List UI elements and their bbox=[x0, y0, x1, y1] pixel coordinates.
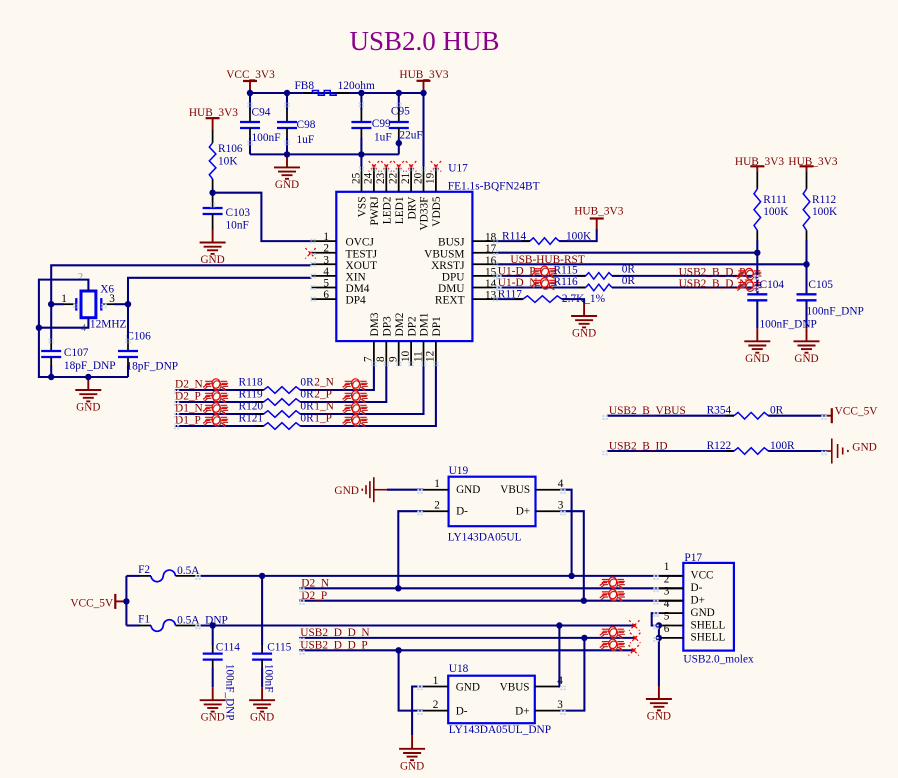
svg-text:LY143DA05UL_DNP: LY143DA05UL_DNP bbox=[449, 724, 551, 736]
svg-text:C114: C114 bbox=[216, 642, 240, 654]
svg-text:100R: 100R bbox=[770, 440, 795, 452]
svg-text:HUB_3V3: HUB_3V3 bbox=[399, 69, 448, 81]
svg-text:HUB_3V3: HUB_3V3 bbox=[574, 205, 623, 217]
svg-text:FB8: FB8 bbox=[295, 80, 315, 92]
svg-text:120ohm: 120ohm bbox=[338, 80, 375, 92]
svg-text:F1: F1 bbox=[138, 613, 150, 625]
svg-text:GND: GND bbox=[201, 712, 225, 724]
svg-text:USB2_B_D_P: USB2_B_D_P bbox=[679, 266, 746, 278]
svg-text:5: 5 bbox=[323, 278, 329, 290]
svg-text:23: 23 bbox=[375, 172, 387, 184]
svg-text:VD33F: VD33F bbox=[419, 197, 431, 231]
svg-text:GND: GND bbox=[456, 484, 480, 496]
svg-text:0R: 0R bbox=[622, 264, 636, 276]
svg-text:R118: R118 bbox=[239, 377, 263, 389]
svg-text:C106: C106 bbox=[126, 331, 151, 343]
svg-text:VCC_5V: VCC_5V bbox=[835, 405, 879, 417]
svg-text:3: 3 bbox=[557, 699, 563, 711]
svg-text:8: 8 bbox=[375, 356, 387, 362]
svg-text:C107: C107 bbox=[64, 347, 89, 359]
svg-text:BUSJ: BUSJ bbox=[438, 237, 465, 249]
svg-text:FE1.1s-BQFN24BT: FE1.1s-BQFN24BT bbox=[448, 181, 540, 193]
svg-text:U1-D_P: U1-D_P bbox=[498, 265, 536, 277]
svg-text:0.5A_DNP: 0.5A_DNP bbox=[177, 614, 228, 626]
svg-text:2: 2 bbox=[664, 573, 670, 585]
svg-text:DPU: DPU bbox=[442, 272, 465, 284]
svg-text:DM2: DM2 bbox=[394, 312, 406, 336]
svg-text:GND: GND bbox=[647, 711, 671, 723]
svg-text:D-: D- bbox=[456, 506, 468, 518]
svg-text:C104: C104 bbox=[760, 279, 785, 291]
svg-text:100nF_DNP: 100nF_DNP bbox=[224, 664, 236, 721]
svg-text:R112: R112 bbox=[812, 194, 836, 206]
svg-text:GND: GND bbox=[76, 402, 100, 414]
svg-text:USB2_B_VBUS: USB2_B_VBUS bbox=[609, 405, 686, 417]
svg-text:R106: R106 bbox=[218, 143, 243, 155]
svg-text:D+: D+ bbox=[515, 705, 529, 717]
svg-text:GND: GND bbox=[572, 328, 596, 340]
svg-text:18pF_DNP: 18pF_DNP bbox=[126, 361, 178, 373]
svg-text:F2: F2 bbox=[138, 564, 150, 576]
svg-text:GND: GND bbox=[275, 179, 299, 191]
svg-text:12: 12 bbox=[425, 351, 437, 362]
svg-text:GND: GND bbox=[745, 353, 769, 365]
svg-text:USB2_D_D_N: USB2_D_D_N bbox=[300, 627, 369, 639]
svg-text:D2_P: D2_P bbox=[301, 590, 327, 602]
svg-text:U19: U19 bbox=[449, 465, 469, 477]
svg-text:C103: C103 bbox=[226, 207, 251, 219]
svg-text:C94: C94 bbox=[252, 107, 271, 119]
svg-text:4: 4 bbox=[323, 266, 329, 278]
svg-text:TESTJ: TESTJ bbox=[346, 248, 378, 260]
svg-text:0R: 0R bbox=[300, 413, 314, 425]
svg-text:GND: GND bbox=[400, 760, 424, 772]
svg-text:P17: P17 bbox=[684, 552, 702, 564]
svg-text:3: 3 bbox=[558, 500, 564, 512]
svg-text:1: 1 bbox=[434, 478, 440, 490]
svg-text:21: 21 bbox=[400, 173, 412, 184]
svg-text:4: 4 bbox=[664, 598, 670, 610]
svg-text:R122: R122 bbox=[707, 440, 732, 452]
svg-text:11: 11 bbox=[412, 351, 424, 362]
svg-text:100nF: 100nF bbox=[262, 664, 274, 693]
svg-text:GND: GND bbox=[250, 712, 274, 724]
svg-text:2_N: 2_N bbox=[314, 377, 334, 389]
svg-text:22uF: 22uF bbox=[399, 130, 422, 142]
svg-text:1uF: 1uF bbox=[297, 134, 315, 146]
svg-text:REXT: REXT bbox=[435, 295, 465, 307]
svg-text:1: 1 bbox=[61, 293, 67, 305]
svg-text:D-: D- bbox=[691, 582, 703, 594]
svg-text:C98: C98 bbox=[297, 119, 316, 131]
svg-text:0R: 0R bbox=[300, 401, 314, 413]
svg-text:DMU: DMU bbox=[438, 283, 464, 295]
svg-text:2.7K_1%: 2.7K_1% bbox=[562, 293, 606, 305]
svg-text:1: 1 bbox=[664, 561, 670, 573]
svg-text:OVCJ: OVCJ bbox=[346, 237, 375, 249]
svg-text:VBUS: VBUS bbox=[500, 484, 530, 496]
svg-text:0.5A: 0.5A bbox=[177, 565, 200, 577]
svg-text:HUB_3V3: HUB_3V3 bbox=[788, 156, 837, 168]
svg-text:100K: 100K bbox=[566, 230, 592, 242]
svg-text:VCC: VCC bbox=[691, 570, 714, 582]
svg-text:2: 2 bbox=[78, 272, 83, 283]
svg-text:VBUSM: VBUSM bbox=[424, 248, 464, 260]
svg-text:DP3: DP3 bbox=[382, 316, 394, 337]
svg-text:100K: 100K bbox=[812, 206, 838, 218]
svg-text:0R: 0R bbox=[300, 377, 314, 389]
svg-text:VCC_5V: VCC_5V bbox=[70, 597, 114, 609]
svg-text:R354: R354 bbox=[707, 404, 732, 416]
svg-text:0R: 0R bbox=[622, 275, 636, 287]
svg-text:C99: C99 bbox=[372, 118, 391, 130]
svg-text:GND: GND bbox=[200, 254, 224, 266]
svg-text:DRV: DRV bbox=[406, 196, 418, 220]
svg-text:1_P: 1_P bbox=[314, 413, 332, 425]
svg-text:VSS: VSS bbox=[357, 197, 369, 218]
svg-text:DP1: DP1 bbox=[431, 316, 443, 336]
svg-text:D2_N: D2_N bbox=[175, 379, 203, 391]
svg-text:GND: GND bbox=[852, 442, 877, 454]
svg-text:4: 4 bbox=[558, 478, 564, 490]
svg-text:USB2.0 HUB: USB2.0 HUB bbox=[349, 26, 499, 56]
svg-text:20: 20 bbox=[412, 172, 424, 184]
svg-text:25: 25 bbox=[350, 172, 362, 184]
svg-text:GND: GND bbox=[456, 681, 480, 693]
svg-text:3: 3 bbox=[664, 586, 670, 598]
svg-text:LED2: LED2 bbox=[382, 196, 394, 224]
svg-text:GND: GND bbox=[334, 485, 359, 497]
svg-text:D-: D- bbox=[456, 705, 468, 717]
svg-text:C115: C115 bbox=[267, 642, 291, 654]
svg-text:R120: R120 bbox=[239, 401, 264, 413]
svg-text:D+: D+ bbox=[691, 595, 705, 607]
svg-text:R111: R111 bbox=[763, 194, 787, 206]
svg-text:PWRJ: PWRJ bbox=[369, 196, 381, 226]
svg-text:2: 2 bbox=[434, 500, 440, 512]
svg-text:SHELL: SHELL bbox=[691, 619, 726, 631]
svg-text:100nF: 100nF bbox=[252, 132, 281, 144]
svg-text:10K: 10K bbox=[218, 156, 238, 168]
svg-text:C105: C105 bbox=[808, 279, 833, 291]
svg-text:HUB_3V3: HUB_3V3 bbox=[735, 156, 784, 168]
svg-text:DM3: DM3 bbox=[369, 312, 381, 336]
svg-text:DM1: DM1 bbox=[419, 313, 431, 337]
svg-text:USB2_B_ID: USB2_B_ID bbox=[609, 441, 668, 453]
svg-text:24: 24 bbox=[363, 172, 375, 184]
svg-text:VDD5: VDD5 bbox=[431, 196, 443, 227]
svg-text:2: 2 bbox=[433, 699, 439, 711]
svg-text:R115: R115 bbox=[554, 264, 578, 276]
svg-text:R114: R114 bbox=[502, 230, 526, 242]
svg-text:10: 10 bbox=[400, 350, 412, 362]
svg-text:D+: D+ bbox=[516, 506, 530, 518]
svg-text:0R: 0R bbox=[300, 389, 314, 401]
svg-text:DP2: DP2 bbox=[406, 316, 418, 337]
svg-text:9: 9 bbox=[388, 356, 400, 362]
svg-text:XOUT: XOUT bbox=[346, 260, 378, 272]
svg-text:U1-D_N: U1-D_N bbox=[498, 277, 538, 289]
svg-text:1uF: 1uF bbox=[374, 132, 392, 144]
svg-text:6: 6 bbox=[664, 623, 670, 635]
svg-text:LED1: LED1 bbox=[394, 197, 406, 225]
svg-text:U17: U17 bbox=[448, 163, 468, 175]
svg-text:LY143DA05UL: LY143DA05UL bbox=[448, 532, 522, 544]
svg-text:2_P: 2_P bbox=[314, 389, 332, 401]
svg-text:USB2.0_molex: USB2.0_molex bbox=[683, 654, 754, 666]
svg-text:VBUS: VBUS bbox=[500, 681, 530, 693]
svg-text:100K: 100K bbox=[763, 206, 789, 218]
svg-text:R121: R121 bbox=[239, 413, 264, 425]
svg-text:12MHZ: 12MHZ bbox=[90, 319, 127, 331]
svg-text:1: 1 bbox=[323, 231, 329, 243]
svg-text:0R: 0R bbox=[770, 404, 784, 416]
svg-text:X6: X6 bbox=[100, 284, 114, 296]
svg-text:100nF_DNP: 100nF_DNP bbox=[760, 319, 817, 331]
svg-text:10nF: 10nF bbox=[226, 220, 249, 232]
svg-text:VCC_3V3: VCC_3V3 bbox=[226, 69, 275, 81]
svg-text:6: 6 bbox=[323, 289, 329, 301]
svg-text:2: 2 bbox=[323, 243, 329, 255]
svg-text:1: 1 bbox=[433, 675, 439, 687]
svg-text:19: 19 bbox=[425, 172, 437, 184]
svg-text:3: 3 bbox=[323, 254, 329, 266]
svg-text:R119: R119 bbox=[239, 389, 263, 401]
svg-text:5: 5 bbox=[664, 611, 670, 623]
svg-text:XIN: XIN bbox=[346, 272, 366, 284]
svg-text:U18: U18 bbox=[449, 663, 469, 675]
svg-text:HUB_3V3: HUB_3V3 bbox=[189, 107, 238, 119]
svg-text:R116: R116 bbox=[554, 276, 578, 288]
svg-text:SHELL: SHELL bbox=[691, 632, 726, 644]
svg-text:D2_N: D2_N bbox=[301, 578, 329, 590]
svg-text:GND: GND bbox=[691, 607, 715, 619]
svg-text:DM4: DM4 bbox=[346, 283, 370, 295]
svg-text:18pF_DNP: 18pF_DNP bbox=[64, 360, 116, 372]
svg-text:1_N: 1_N bbox=[314, 401, 334, 413]
svg-text:7: 7 bbox=[363, 356, 375, 362]
svg-text:USB2_D_D_P: USB2_D_D_P bbox=[300, 640, 367, 652]
svg-text:100nF_DNP: 100nF_DNP bbox=[807, 306, 864, 318]
svg-text:XRSTJ: XRSTJ bbox=[431, 260, 465, 272]
svg-text:DP4: DP4 bbox=[346, 295, 367, 307]
svg-text:GND: GND bbox=[794, 353, 818, 365]
svg-text:22: 22 bbox=[388, 173, 400, 184]
